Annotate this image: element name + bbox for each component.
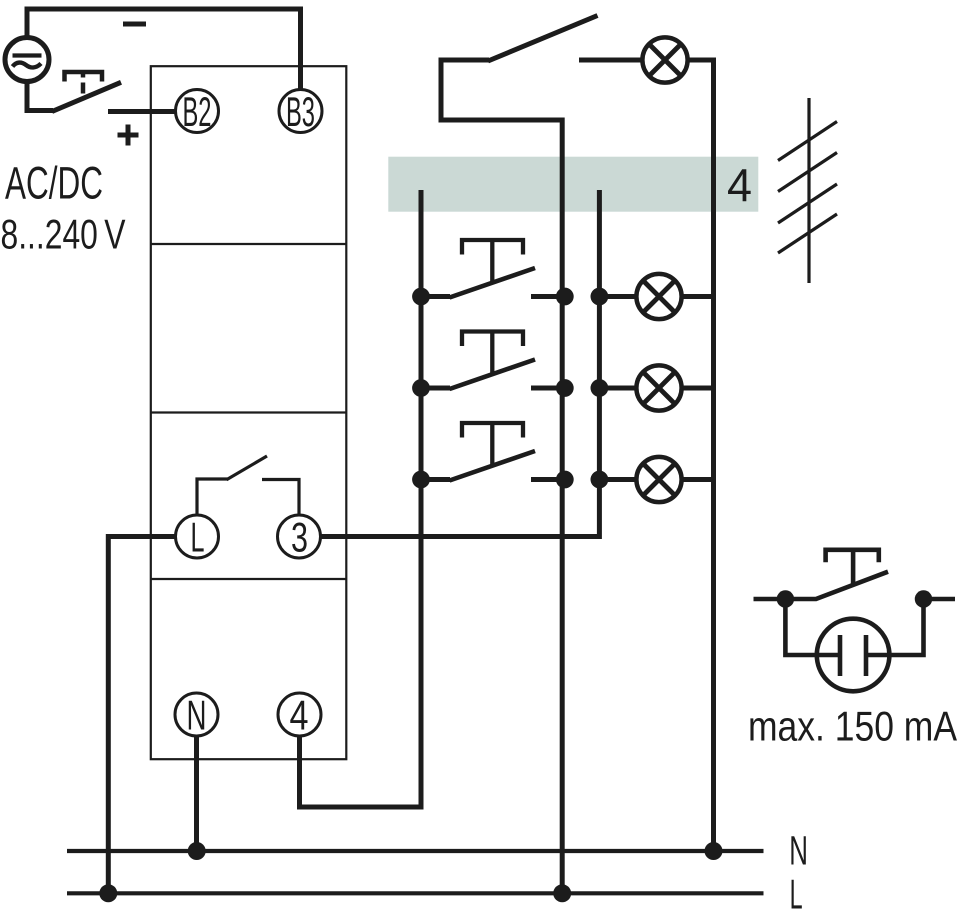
svg-text:AC/DC: AC/DC <box>5 157 103 208</box>
svg-text:L: L <box>191 514 205 561</box>
svg-text:B3: B3 <box>286 88 315 135</box>
svg-text:N: N <box>789 828 808 874</box>
svg-text:max. 150 mA: max. 150 mA <box>748 702 957 749</box>
svg-text:4: 4 <box>727 159 752 211</box>
svg-text:4: 4 <box>290 692 309 739</box>
svg-text:3: 3 <box>291 514 308 561</box>
svg-text:N: N <box>187 692 207 739</box>
svg-text:L: L <box>790 871 803 918</box>
svg-text:8...240 V: 8...240 V <box>1 210 126 257</box>
svg-text:B2: B2 <box>183 88 212 135</box>
